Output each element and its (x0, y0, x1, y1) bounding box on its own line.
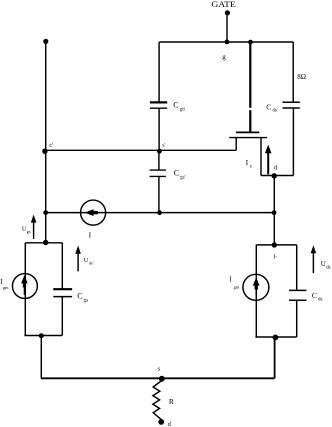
svg-text:ds: ds (318, 297, 323, 302)
svg-text:s': s' (162, 143, 165, 149)
svg-text:c': c' (49, 142, 53, 149)
svg-text:ds': ds' (272, 109, 277, 114)
svg-text:ds: ds (326, 265, 330, 270)
svg-text:gs': gs' (180, 176, 185, 181)
svg-text:I: I (229, 276, 232, 284)
svg-text:U: U (321, 260, 326, 268)
svg-text:GATE: GATE (211, 0, 235, 9)
svg-text:ds': ds' (89, 261, 94, 266)
svg-text:s: s (158, 366, 161, 373)
svg-text:gm: gm (234, 285, 240, 290)
svg-text:gs: gs (84, 298, 89, 303)
svg-text:gm: gm (3, 285, 9, 290)
svg-text:d: d (274, 164, 278, 171)
svg-text:C: C (173, 101, 178, 110)
svg-text:gd: gd (180, 107, 186, 112)
svg-text:I: I (89, 230, 92, 239)
svg-text:C: C (266, 102, 271, 111)
svg-text:R: R (169, 397, 174, 406)
svg-text:C: C (312, 291, 317, 300)
svg-text:8Ω: 8Ω (297, 73, 306, 81)
svg-text:I·: I· (273, 254, 277, 261)
svg-text:g: g (222, 53, 226, 61)
svg-text:s: s (250, 164, 252, 169)
svg-text:C: C (77, 292, 82, 301)
svg-text:d: d (168, 421, 172, 427)
svg-text:C: C (174, 169, 179, 178)
svg-text:I: I (246, 158, 249, 167)
svg-text:gs: gs (27, 229, 31, 234)
